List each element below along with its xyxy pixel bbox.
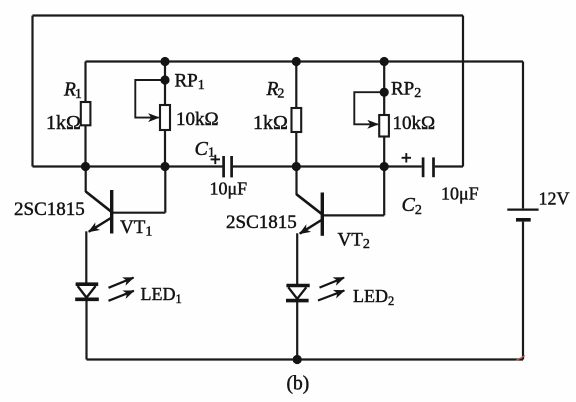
svg-text:VT1: VT1 [120,217,152,240]
junction dot: RP1 top on supply rail [160,57,169,66]
capacitor C2 plates [423,157,433,177]
svg-text:LED2: LED2 [353,286,394,308]
svg-text:10kΩ: 10kΩ [176,109,219,130]
wire: right drop from top rail to C2 right plate [462,16,464,167]
wire: LED2 bottom lead [296,302,298,360]
wire: R2 top lead [295,62,297,109]
transistor VT1 collector slant [86,192,111,212]
potentiometer RP2 body [379,115,389,137]
junction dot: RP1 bottom / VT1 base node [160,162,169,171]
wire: RP1 bottom lead [164,130,166,167]
svg-text:10μF: 10μF [441,184,479,204]
label: C1 polarity plus [211,155,220,164]
LED1 light arrows [109,278,134,301]
transistor VT1 emitter arrow [89,218,112,232]
svg-text:R1: R1 [63,80,82,103]
wire: VT1 emitter lead [85,231,87,283]
transistor VT1 base bar [110,190,113,234]
wire: R1 bottom lead [84,125,86,166]
junction dot: R2 top on supply rail [292,57,301,66]
junction dot: R2 bottom / VT2 collector node [292,162,301,171]
transistor VT2 base bar [321,193,324,236]
wire: bottom ground rail [87,358,524,360]
junction dot: LED2 bottom on ground rail [293,355,302,364]
transistor VT2 emitter arrow [300,220,323,234]
svg-text:1kΩ: 1kΩ [46,112,81,134]
resistor R2 [292,108,302,132]
battery GB 12V positive plate [507,208,538,210]
LED1 [75,284,99,299]
transistor VT2 collector slant [297,194,322,214]
svg-text:10μF: 10μF [210,179,248,199]
svg-text:LED1: LED1 [141,284,182,306]
wire: VT2 base vertical [383,167,385,216]
wire: supply rail drop to battery positive [522,62,524,209]
label: C2 polarity plus [402,153,411,162]
junction dot: RP2 top on supply rail [380,57,389,66]
svg-text:R2: R2 [266,79,285,102]
wire: VT2 emitter lead [296,233,298,285]
svg-text:C2: C2 [402,194,422,218]
svg-text:RP1: RP1 [175,71,205,94]
wire: VT1 collector lead vertical [85,167,87,193]
svg-text:1kΩ: 1kΩ [253,112,288,134]
svg-text:2SC1815: 2SC1815 [14,199,85,220]
wire: VT2 base horizontal lead [324,214,385,216]
wire: C2 right plate to right drop [435,165,463,167]
svg-text:RP2: RP2 [391,79,421,102]
potentiometer RP2 wiper arm [354,92,384,124]
svg-text:12V: 12V [539,189,570,209]
wire: left vertical drop [31,16,33,167]
wire: LED1 bottom lead [85,301,87,360]
wire: middle rail C1 right plate to C2 left plate [233,165,422,167]
wire: left base rail (y=166) to C1 [33,165,223,167]
junction dot: RP1 wiper tie [160,75,169,84]
junction dot: RP2 wiper tie [380,88,389,97]
svg-text:VT2: VT2 [338,230,370,253]
wire: R2 bottom lead [295,132,297,167]
battery GB 12V negative plate [516,218,531,222]
wire: R1 top lead [84,62,86,103]
wire: battery negative lead [522,222,524,360]
svg-text:(b): (b) [287,374,310,395]
resistor R1 [81,102,91,125]
wire: VT1 base horizontal lead [113,212,165,214]
wire: RP2 top lead [383,62,385,116]
wire: +V supply rail [86,60,524,62]
svg-text:C1: C1 [195,138,215,161]
svg-text:10kΩ: 10kΩ [393,113,436,134]
junction dot: R1 bottom / VT1 collector node [81,162,90,171]
svg-text:2SC1815: 2SC1815 [226,212,297,233]
LED2 light arrows [318,278,344,301]
potentiometer RP1 wiper arm [135,80,165,118]
LED2 [286,286,310,301]
wire: RP2 bottom lead [383,137,385,167]
wire: VT2 collector lead vertical [295,167,297,196]
wire: RP1 top lead [164,62,166,106]
junction dot: RP2 bottom / VT2 base node [380,162,389,171]
potentiometer RP1 body [160,105,170,130]
wire: top rail [33,14,464,16]
wire: VT1 base vertical [164,167,166,213]
capacitor C1 plates [224,156,232,177]
scan artifact: red corner mark [516,356,525,361]
